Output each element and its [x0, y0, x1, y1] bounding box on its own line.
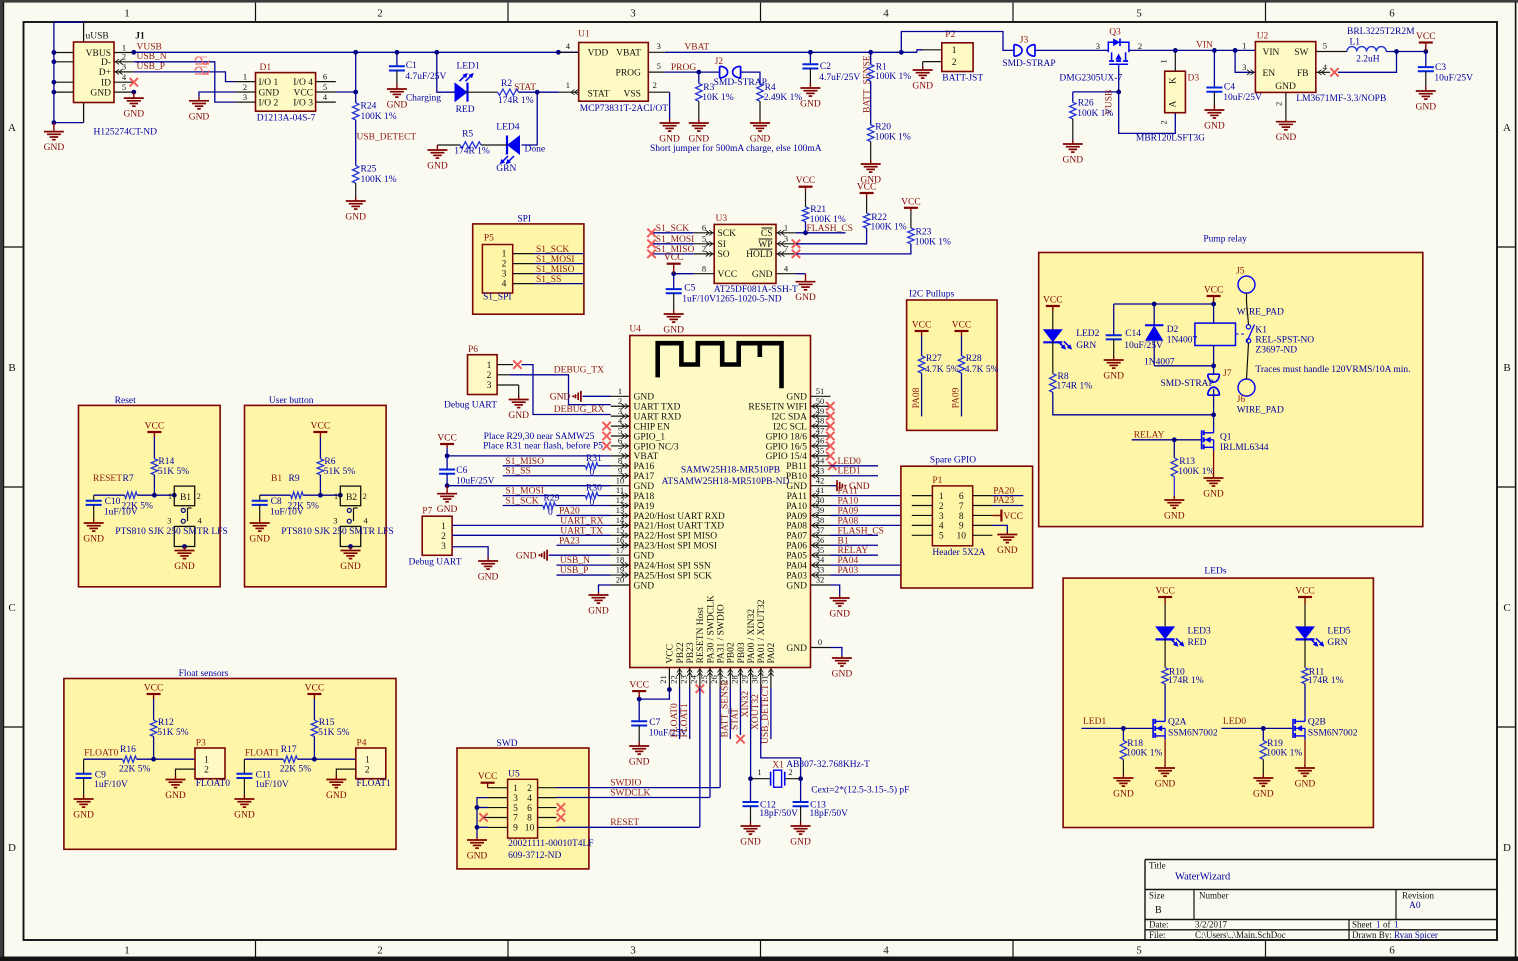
svg-text:6: 6 [323, 71, 327, 81]
svg-text:9: 9 [959, 522, 964, 532]
wire PA09 pin39 to P1 [831, 514, 933, 516]
P5 pin stubs and wires [513, 253, 534, 255]
svg-text:RESETN WIFI: RESETN WIFI [748, 403, 807, 413]
svg-text:B: B [1155, 905, 1162, 916]
svg-text:Revision: Revision [1402, 891, 1435, 901]
svg-text:I2C Pullups: I2C Pullups [909, 290, 954, 300]
svg-text:VCC: VCC [664, 253, 684, 263]
connector P5 [482, 245, 512, 294]
sheet border frame [0, 0, 1518, 3]
svg-text:2: 2 [939, 502, 944, 512]
svg-text:7: 7 [784, 244, 788, 254]
capacitor C12 [750, 779, 752, 802]
svg-text:3: 3 [167, 515, 171, 525]
svg-text:P4: P4 [357, 739, 367, 749]
wire SWDIO from pin26 [719, 688, 721, 788]
resistor R14 [153, 437, 155, 459]
svg-text:B: B [1503, 362, 1510, 374]
svg-text:GND: GND [786, 644, 807, 654]
svg-text:2: 2 [653, 80, 657, 90]
svg-text:GND: GND [588, 607, 609, 617]
svg-text:ID: ID [101, 79, 111, 89]
svg-text:VCC: VCC [437, 434, 457, 444]
LED LED3 [1164, 604, 1166, 626]
svg-text:2: 2 [702, 244, 706, 254]
ground below C5 [673, 310, 675, 314]
svg-text:GND: GND [1295, 780, 1316, 790]
svg-text:5: 5 [323, 82, 327, 92]
svg-text:4: 4 [883, 8, 889, 20]
no-ERC X U4 left pins 4 5 6 [602, 422, 610, 430]
svg-text:USB_P: USB_P [560, 566, 589, 576]
P1 left pin stubs [912, 495, 933, 497]
svg-text:B2: B2 [346, 493, 357, 503]
svg-text:5: 5 [657, 61, 661, 71]
svg-text:100K 1%: 100K 1% [1077, 109, 1113, 119]
wire WP to R22 [796, 228, 867, 244]
svg-text:5: 5 [122, 82, 126, 92]
svg-text:6: 6 [1389, 8, 1395, 20]
U3 right pin stubs [776, 232, 796, 234]
wire R3 to ground [698, 101, 700, 119]
svg-text:5: 5 [1136, 945, 1142, 957]
wire P6 pin1 DEBUG_RX route [522, 365, 611, 415]
power VCC in User button [319, 432, 321, 437]
svg-text:U4: U4 [629, 325, 641, 335]
svg-text:Q1: Q1 [1220, 433, 1232, 443]
wire U4 pin21 VCC [639, 688, 669, 700]
svg-text:RED: RED [1188, 638, 1207, 648]
svg-text:1uF/10V: 1uF/10V [270, 508, 304, 518]
svg-text:100K 1%: 100K 1% [361, 175, 397, 185]
svg-text:VCC: VCC [305, 684, 325, 694]
svg-text:VCC: VCC [311, 422, 331, 432]
wire RELAY pin35 [831, 554, 879, 556]
svg-text:uUSB: uUSB [86, 32, 109, 42]
svg-text:100K 1%: 100K 1% [875, 133, 911, 143]
no-ERC X S1_MISO [647, 250, 655, 258]
power VCC LED5 [1304, 597, 1306, 604]
no-connect X on J1 ID pin [130, 78, 138, 86]
svg-text:R17: R17 [281, 745, 297, 755]
wire XOUT32 from pin30 [761, 688, 801, 779]
wire USB_P to D1 [134, 72, 236, 82]
svg-text:B1: B1 [838, 536, 849, 546]
svg-text:GND: GND [189, 112, 210, 122]
svg-text:GPIO 15/4: GPIO 15/4 [766, 452, 808, 462]
wire PA23 to pin16 [557, 544, 611, 546]
U3 left pin stubs [694, 232, 714, 234]
resistor R21 [805, 222, 807, 233]
svg-text:FLOAT1: FLOAT1 [245, 749, 280, 759]
svg-text:R4: R4 [765, 83, 776, 93]
regulator U2 LM3671 [1255, 42, 1315, 93]
svg-text:8: 8 [702, 263, 706, 273]
svg-text:1: 1 [441, 522, 446, 532]
svg-text:Drawn By:: Drawn By: [1352, 930, 1392, 940]
svg-text:D1: D1 [260, 63, 272, 73]
svg-text:PA18: PA18 [634, 492, 655, 502]
resistor R12 [153, 699, 155, 720]
wire C6 to U4 pin10 gnd row [447, 485, 611, 487]
svg-text:5: 5 [939, 532, 944, 542]
svg-text:J3: J3 [1020, 36, 1029, 46]
jumper J3 SMD-STRAP [1014, 45, 1022, 57]
svg-text:UART_RX: UART_RX [560, 516, 603, 526]
svg-text:GND: GND [1276, 133, 1297, 143]
svg-text:R27: R27 [926, 354, 942, 364]
wire U4 pin17 gnd [549, 554, 611, 556]
svg-text:21: 21 [658, 675, 668, 684]
svg-text:PA03: PA03 [838, 566, 859, 576]
transistor Q3 P-MOSFET [1108, 42, 1129, 52]
wire LED1 branch [437, 52, 455, 92]
wire U5 gnd bus [477, 798, 488, 838]
svg-text:3: 3 [243, 92, 247, 102]
svg-text:P3: P3 [196, 739, 206, 749]
power VCC output [1425, 43, 1427, 52]
no-ERC X S1_MOSI [647, 240, 655, 248]
wire VUSB vertical bus at USB connector [53, 22, 55, 122]
svg-text:USB_P: USB_P [137, 62, 166, 72]
svg-text:6: 6 [527, 804, 532, 814]
block Reset [79, 405, 221, 586]
svg-text:PB11: PB11 [786, 462, 807, 472]
svg-text:3: 3 [630, 8, 636, 20]
resistor R4 [757, 83, 763, 101]
svg-text:USB_N: USB_N [137, 52, 167, 62]
svg-text:LED1: LED1 [838, 467, 861, 477]
resistor R13 [1173, 440, 1175, 458]
power VCC at U3 [673, 264, 675, 274]
svg-text:VCC: VCC [1204, 286, 1224, 296]
svg-text:174R 1%: 174R 1% [454, 146, 490, 156]
svg-text:R21: R21 [810, 205, 826, 215]
svg-text:23: 23 [679, 675, 689, 684]
wire Q3 gate node to D3 anode [1119, 92, 1176, 133]
svg-text:10: 10 [957, 532, 967, 542]
svg-text:2: 2 [243, 82, 247, 92]
svg-text:D: D [8, 842, 16, 854]
J1 D- D+ pin arrows [116, 59, 123, 64]
svg-text:AB307-32.768KHz-T: AB307-32.768KHz-T [786, 760, 870, 770]
svg-text:PA20: PA20 [559, 506, 580, 516]
svg-text:100K 1%: 100K 1% [1126, 748, 1162, 758]
svg-text:PA07: PA07 [786, 532, 807, 542]
svg-text:C11: C11 [256, 770, 272, 780]
svg-text:VCC: VCC [796, 176, 816, 186]
svg-text:1: 1 [204, 756, 209, 766]
J1 pin stubs right with numbers [114, 52, 134, 54]
svg-text:6: 6 [1389, 945, 1395, 957]
wire BATT_SENSE from pin27 [729, 688, 731, 740]
transistor Q2B [1292, 719, 1294, 738]
svg-text:51K 5%: 51K 5% [324, 467, 355, 477]
ground below C14 [1113, 356, 1115, 360]
wire U4 pin32 to ground [831, 585, 840, 595]
U5 pin stubs [488, 787, 508, 789]
svg-text:I2C SCL: I2C SCL [773, 422, 807, 432]
svg-text:LEDs: LEDs [1204, 567, 1226, 577]
svg-text:30: 30 [750, 675, 760, 684]
resistor R28 [961, 336, 963, 356]
svg-text:P6: P6 [468, 345, 478, 355]
svg-text:1uF/10V: 1uF/10V [94, 780, 128, 790]
svg-text:8: 8 [618, 455, 622, 465]
U2 FB stub with no-ERC [1316, 71, 1330, 73]
connector P2 battery [942, 43, 973, 72]
svg-text:R7: R7 [123, 474, 134, 484]
svg-text:20: 20 [616, 575, 625, 585]
ground below Q2B [1304, 764, 1306, 768]
ground below B1 [184, 547, 186, 551]
svg-text:2: 2 [952, 58, 957, 68]
power VCC LED2 [1052, 306, 1054, 311]
svg-text:GND: GND [340, 562, 361, 572]
svg-text:31: 31 [760, 675, 770, 684]
U2 GND pin to ground [1285, 92, 1287, 119]
svg-text:100K 1%: 100K 1% [915, 237, 951, 247]
capacitor C8 [252, 500, 268, 502]
svg-text:14: 14 [616, 515, 625, 525]
svg-text:SW: SW [1294, 48, 1308, 58]
svg-text:FB: FB [1297, 69, 1309, 79]
svg-text:PA09: PA09 [786, 512, 807, 522]
svg-text:GND: GND [829, 610, 850, 620]
ground below U1 VSS [669, 119, 671, 123]
svg-text:GND: GND [234, 811, 255, 821]
svg-text:18pF/50V: 18pF/50V [759, 809, 798, 819]
svg-text:2: 2 [197, 492, 201, 501]
svg-text:GND: GND [634, 393, 655, 403]
svg-text:R9: R9 [289, 474, 300, 484]
svg-text:STAT: STAT [588, 90, 610, 100]
svg-text:C10: C10 [105, 497, 121, 507]
svg-text:GND: GND [90, 88, 111, 98]
resistor R2 [498, 89, 519, 95]
ground below C2 [809, 83, 811, 88]
svg-text:B: B [8, 362, 15, 374]
svg-text:2: 2 [618, 396, 622, 406]
flash U3 AT25DF081A [714, 224, 776, 283]
svg-text:SWDCLK: SWDCLK [610, 788, 650, 798]
svg-text:10uF/25V: 10uF/25V [1223, 93, 1262, 103]
svg-text:LED2: LED2 [1076, 329, 1099, 339]
svg-text:VBAT: VBAT [634, 452, 659, 462]
svg-text:Cext=2*(12.5-3.15-.5) pF: Cext=2*(12.5-3.15-.5) pF [811, 784, 909, 795]
svg-text:GND: GND [467, 852, 488, 862]
svg-text:PA04: PA04 [786, 561, 807, 571]
resistor R22 [863, 213, 869, 228]
wire VUSB rail [134, 51, 356, 53]
ground below R18 [1122, 774, 1124, 778]
svg-text:C7: C7 [649, 718, 660, 728]
svg-text:51K 5%: 51K 5% [318, 728, 349, 738]
resistor R17 [283, 756, 297, 762]
wire R8 to relay low node [1053, 392, 1214, 415]
svg-text:GND: GND [326, 791, 347, 801]
svg-text:A0: A0 [1409, 901, 1421, 911]
svg-text:5: 5 [1323, 41, 1327, 51]
ground below C3 [1425, 86, 1427, 91]
svg-text:P7: P7 [422, 507, 432, 517]
svg-text:R29: R29 [544, 494, 560, 504]
svg-text:Date:: Date: [1149, 920, 1169, 930]
svg-text:VCC: VCC [718, 270, 738, 280]
svg-text:LED3: LED3 [1188, 627, 1211, 637]
svg-text:SO: SO [718, 250, 730, 260]
wire P1 pin9 to ground [992, 525, 1007, 531]
svg-text:MBR120LSFT3G: MBR120LSFT3G [1136, 134, 1205, 144]
resistor R9 [291, 492, 304, 498]
wire VBAT rail [665, 51, 917, 53]
svg-text:1: 1 [784, 222, 788, 232]
ground symbol at U4 pin42 [831, 485, 838, 487]
svg-text:VCC: VCC [952, 321, 972, 331]
svg-text:R12: R12 [158, 718, 174, 728]
svg-text:VCC: VCC [629, 681, 649, 691]
D1 left pin stubs [236, 81, 256, 83]
wire HOLD to R23 [796, 244, 911, 254]
wire PA09 pullup [961, 373, 963, 416]
wire R20 to ground [870, 142, 872, 161]
svg-text:PA22/Host SPI MISO: PA22/Host SPI MISO [634, 532, 718, 542]
wire USB_N to D1 [134, 62, 236, 102]
power VCC above R21 [805, 191, 807, 207]
svg-text:of: of [1383, 920, 1391, 930]
wire P7 pin3 to ground [452, 547, 488, 557]
svg-text:C14: C14 [1125, 329, 1141, 339]
svg-text:S1_SS: S1_SS [505, 467, 530, 477]
svg-text:GND: GND [1253, 790, 1274, 800]
svg-text:D+: D+ [99, 68, 111, 78]
svg-text:C: C [1503, 602, 1510, 614]
svg-text:100K 1%: 100K 1% [1266, 748, 1302, 758]
svg-text:4: 4 [883, 945, 889, 957]
svg-text:174R 1%: 174R 1% [1057, 382, 1093, 392]
svg-text:I2C SDA: I2C SDA [771, 412, 807, 422]
LED LED5 [1304, 604, 1306, 626]
ground below B2 [350, 547, 352, 551]
svg-text:100K 1%: 100K 1% [810, 215, 846, 225]
svg-text:Reset: Reset [115, 396, 136, 406]
svg-text:GND: GND [832, 670, 853, 680]
svg-text:PB23: PB23 [686, 642, 696, 663]
svg-text:SWD: SWD [497, 739, 518, 749]
block Float sensors [64, 679, 396, 850]
wire J2 to R4 [741, 72, 760, 83]
svg-text:GND: GND [427, 162, 448, 172]
wire FLOAT0 node [153, 737, 155, 760]
svg-text:VCC: VCC [1416, 32, 1436, 42]
capacitor C2 [809, 52, 811, 64]
resistor R11 [1302, 668, 1308, 684]
svg-text:1: 1 [757, 767, 761, 777]
svg-text:Q3: Q3 [1109, 27, 1121, 37]
wire PROG to J2 [665, 71, 720, 73]
U4 pin 0 stub [811, 647, 831, 649]
wire contact to J6 [1247, 343, 1249, 379]
inductor L1 [1347, 47, 1357, 52]
power VCC above R22 [866, 197, 868, 213]
module U4 SAMW25 body [630, 336, 811, 668]
wire PA11 pin41 to P1 [831, 495, 933, 497]
svg-text:WIRE_PAD: WIRE_PAD [1237, 406, 1284, 416]
svg-text:100K 1%: 100K 1% [1178, 467, 1214, 477]
ground below C6 [446, 486, 448, 494]
wire S1_MOSI stub [652, 243, 694, 245]
svg-text:25: 25 [699, 675, 709, 684]
svg-text:1: 1 [334, 492, 338, 501]
svg-text:VBAT: VBAT [616, 49, 641, 59]
ground below R20 [870, 160, 872, 164]
svg-text:GND: GND [740, 838, 761, 848]
svg-text:10uF/25V: 10uF/25V [456, 477, 495, 487]
svg-text:1: 1 [952, 46, 957, 56]
U1 pin stubs [559, 51, 579, 53]
svg-text:H125274CT-ND: H125274CT-ND [94, 128, 158, 138]
capacitor C5 [673, 274, 675, 289]
wire J3 to Q3 [1035, 49, 1108, 51]
svg-text:PB22: PB22 [676, 642, 686, 663]
svg-text:STAT: STAT [731, 708, 741, 730]
svg-text:GND: GND [1164, 512, 1185, 522]
svg-text:PA04: PA04 [838, 556, 859, 566]
svg-text:4: 4 [527, 794, 532, 804]
svg-text:22K 5%: 22K 5% [119, 765, 150, 775]
wire R4 to ground [759, 101, 761, 119]
svg-text:D3: D3 [1188, 74, 1200, 84]
svg-text:J2: J2 [715, 57, 724, 67]
svg-text:A: A [1503, 122, 1511, 134]
svg-text:GPIO_1: GPIO_1 [634, 432, 666, 442]
wire P7 pin2 UART_TX to U4 pin15 [452, 534, 611, 536]
svg-text:0: 0 [818, 637, 822, 647]
capacitor C4 [1213, 50, 1215, 87]
ground at P7 pin3 [487, 557, 489, 561]
wire FB to VCC node [1338, 52, 1397, 73]
capacitor C1 [396, 52, 398, 66]
svg-text:PA25/Host SPI SCK: PA25/Host SPI SCK [634, 571, 712, 581]
ground below Q1 [1213, 474, 1215, 478]
svg-text:5: 5 [702, 233, 706, 243]
wire PA08 pullup [921, 373, 923, 416]
svg-text:7: 7 [618, 445, 622, 455]
svg-text:VCC: VCC [901, 197, 921, 207]
relay K1 contact [1236, 333, 1246, 335]
wire FLASH_CS pin37 [831, 534, 879, 536]
no-ERC X on WP [792, 240, 800, 248]
wire Q2A source to ground [1164, 739, 1166, 764]
wire R26 to ground [1072, 119, 1074, 140]
svg-text:GND: GND [1103, 372, 1124, 382]
svg-text:File:: File: [1149, 930, 1166, 940]
svg-text:3: 3 [1242, 62, 1246, 72]
wire P6 pin3 to ground [497, 384, 519, 386]
wire STAT from pin28 [739, 688, 741, 736]
ground symbol at U4 pin1 [572, 395, 574, 397]
svg-text:FLOAT0: FLOAT0 [84, 749, 119, 759]
wire LED0 to gate [1221, 727, 1293, 729]
svg-text:8: 8 [959, 512, 964, 522]
ESD diode D1 [256, 73, 316, 112]
svg-text:BATT-JST: BATT-JST [942, 74, 983, 84]
wire LED2 to R8 [1052, 342, 1054, 374]
resistor R15 [313, 699, 315, 720]
wire PA04 pin34 to P1 pin5 [831, 535, 933, 565]
wire RESET to capacitor [94, 494, 125, 496]
svg-text:4.7K 5%: 4.7K 5% [925, 365, 959, 375]
